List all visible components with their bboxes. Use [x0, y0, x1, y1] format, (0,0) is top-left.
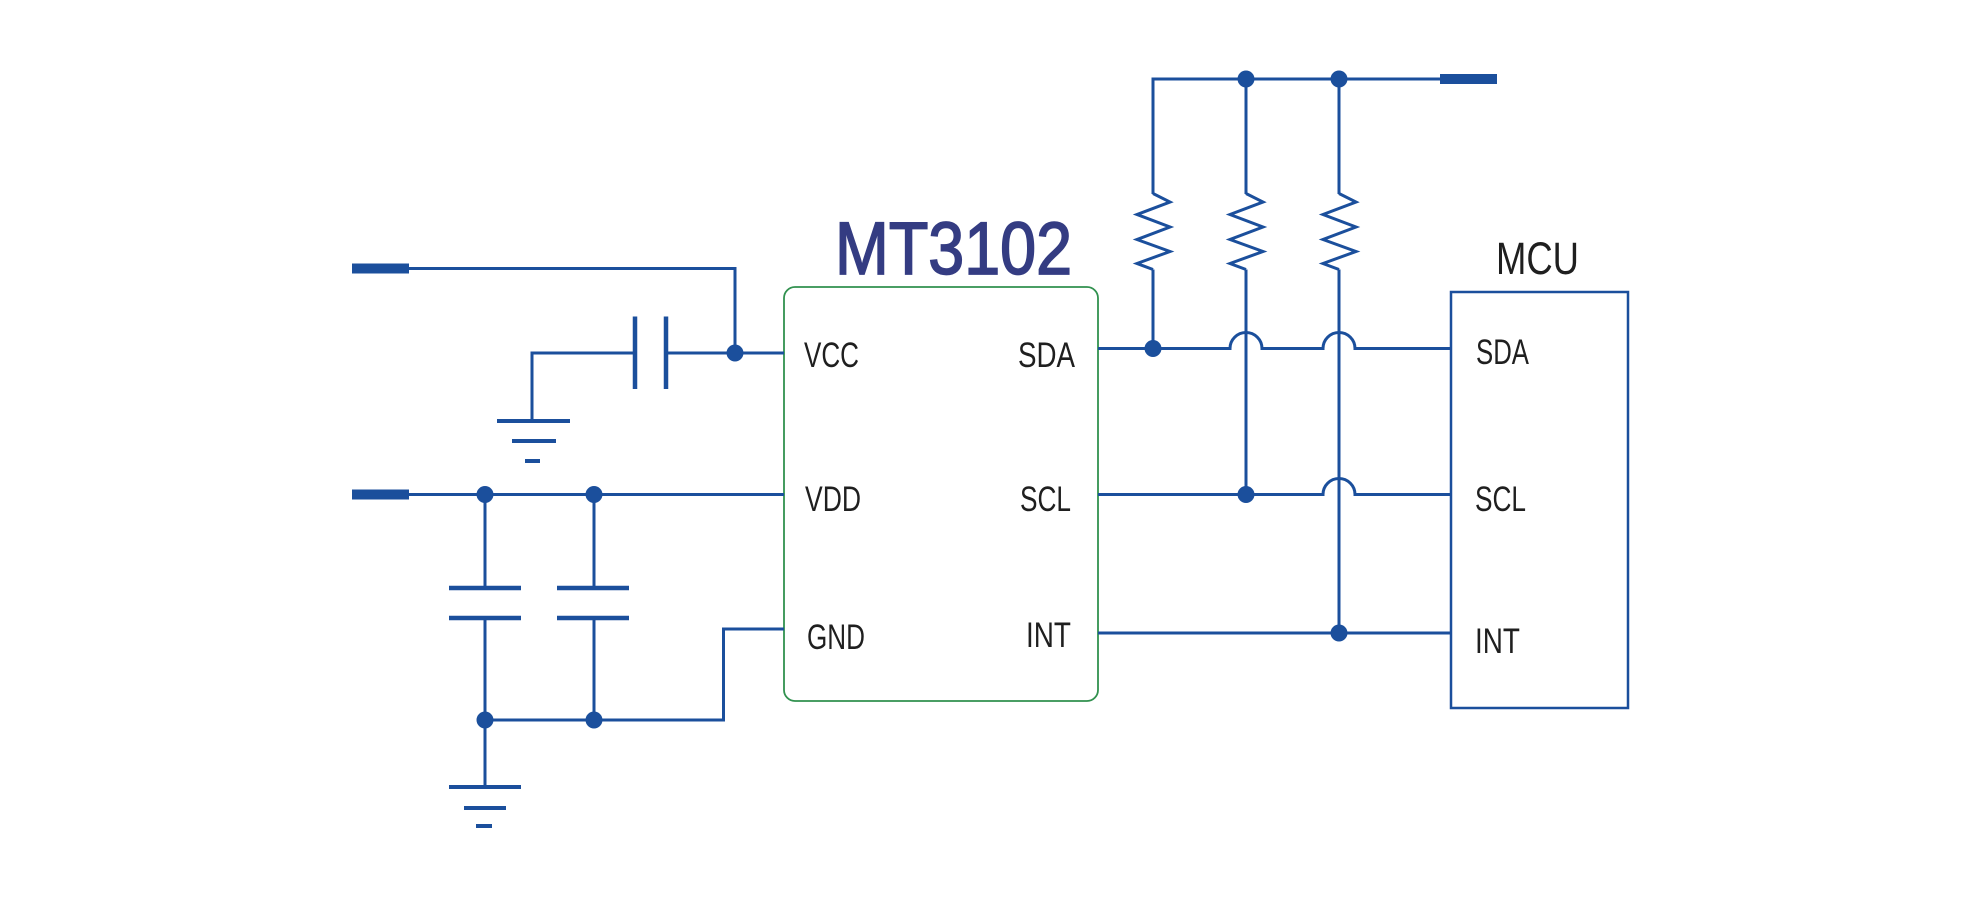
VDD supply stub [352, 490, 409, 500]
pull-up supply stub [1440, 74, 1497, 84]
wire C3 bottom plate to GND return [593, 618, 596, 720]
node GND-C2 [477, 712, 494, 729]
node VCC junction [727, 345, 744, 362]
resistor R3 [1323, 79, 1356, 633]
wire C2 bottom plate to GND return [484, 618, 487, 720]
svg-text:GND: GND [807, 618, 865, 657]
svg-text:INT: INT [1475, 622, 1520, 661]
wire C1 left plate to ground GND1 [532, 353, 635, 421]
capacitor C2 plates [449, 588, 521, 618]
wire INT [1098, 632, 1451, 635]
svg-text:SCL: SCL [1020, 480, 1071, 519]
wire GND return from U1 GND pin [485, 629, 784, 720]
svg-text:SDA: SDA [1476, 333, 1529, 372]
ground GND1 [497, 421, 570, 461]
svg-text:MT3102: MT3102 [835, 207, 1072, 290]
wire C1 right plate to VCC node [666, 352, 727, 355]
IC U1 MT3102 body [784, 287, 1098, 701]
wire VDD node to C3 top plate [593, 495, 596, 589]
svg-text:MCU: MCU [1496, 233, 1579, 284]
node VDD-C2 [477, 486, 494, 503]
node VDD-C3 [586, 486, 603, 503]
resistor R2 [1230, 79, 1263, 495]
wire SDA with hops over R2 and R3 [1098, 333, 1451, 349]
svg-text:SDA: SDA [1018, 336, 1076, 375]
ground GND2 [449, 787, 521, 826]
wire pull-up top rail [1153, 78, 1443, 81]
svg-text:VDD: VDD [805, 480, 861, 519]
capacitor C3 plates [557, 588, 629, 618]
svg-text:INT: INT [1026, 616, 1071, 655]
wire SCL with hop over R3 [1098, 479, 1451, 495]
node rail-R2 [1238, 71, 1255, 88]
wire VCC node to U1 VCC pin [735, 352, 784, 355]
node GND-C3 [586, 712, 603, 729]
resistor R1 [1137, 78, 1170, 349]
node INT-R3 [1331, 625, 1348, 642]
VCC supply stub [352, 264, 409, 274]
wire GND node to ground GND2 [484, 720, 487, 787]
node SCL-R2 [1238, 486, 1255, 503]
svg-text:VCC: VCC [804, 336, 859, 375]
wire VDD node to C2 top plate [484, 495, 487, 589]
node SDA-R1 [1145, 340, 1162, 357]
wire VCC stub to VCC node [409, 269, 735, 354]
svg-text:SCL: SCL [1475, 480, 1526, 519]
wire VDD rail to U1 VDD pin [409, 493, 784, 496]
MCU U2 body [1451, 292, 1628, 708]
node rail-R3 [1331, 71, 1348, 88]
capacitor C1 plates [635, 317, 666, 390]
